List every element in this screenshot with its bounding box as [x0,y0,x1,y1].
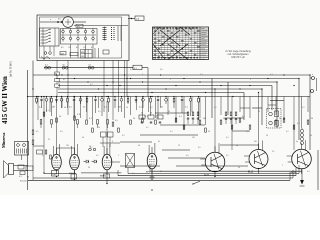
svg-text:5k: 5k [279,118,281,120]
svg-text:LW: LW [81,56,84,58]
svg-text:2k: 2k [133,118,135,120]
svg-text:50: 50 [160,171,162,173]
svg-text:0,2: 0,2 [90,84,93,86]
svg-text:0,5: 0,5 [60,131,63,133]
svg-text:50: 50 [258,111,260,113]
svg-text:50: 50 [27,177,29,179]
svg-text:1: 1 [170,79,171,81]
svg-text:0,1: 0,1 [90,147,93,149]
svg-text:47: 47 [63,79,65,81]
svg-text:50: 50 [238,167,240,169]
svg-text:0,1: 0,1 [98,111,101,113]
svg-text:0,3: 0,3 [246,131,249,133]
svg-text:2: 2 [250,79,251,81]
svg-text:0,5: 0,5 [186,155,189,157]
svg-text:0,1: 0,1 [200,74,203,76]
svg-text:50: 50 [88,167,90,169]
svg-text:50: 50 [311,118,313,120]
svg-text:25: 25 [48,139,50,141]
svg-text:0,1: 0,1 [130,69,133,71]
svg-text:50: 50 [141,113,143,115]
svg-text:1W: 1W [66,145,69,147]
svg-text:4,7k: 4,7k [77,114,81,116]
svg-text:0,1: 0,1 [297,123,300,125]
svg-text:50: 50 [126,107,128,109]
svg-text:8.2: 8.2 [76,47,79,49]
svg-text:1M: 1M [203,118,206,120]
svg-text:415 GW II Wien: 415 GW II Wien [2,76,9,124]
svg-text:0,1: 0,1 [226,155,229,157]
svg-text:MW: MW [81,52,85,54]
svg-text:Kl.1250: Kl.1250 [20,181,26,183]
svg-text:0,2: 0,2 [122,135,125,137]
svg-text:50: 50 [150,113,152,115]
svg-text:50: 50 [138,145,140,147]
svg-text:445 kHz 1 µF: 445 kHz 1 µF [231,57,245,59]
svg-text:4,5: 4,5 [58,18,61,20]
svg-text:8.2: 8.2 [69,47,72,49]
svg-text:0,1: 0,1 [36,131,39,133]
svg-text:4µ: 4µ [296,141,298,143]
svg-text:0,1: 0,1 [132,173,135,175]
svg-text:8.2: 8.2 [91,47,94,49]
svg-text:EL11: EL11 [204,175,210,177]
svg-text:0,1: 0,1 [42,155,45,157]
svg-text:0,5: 0,5 [115,120,118,122]
svg-text:0,1: 0,1 [270,74,273,76]
svg-text:0,1: 0,1 [19,176,22,178]
svg-text:50: 50 [59,116,61,118]
svg-text:(ab Nr. 59 601): (ab Nr. 59 601) [10,61,13,77]
svg-text:2: 2 [282,165,283,167]
svg-text:Minerva: Minerva [1,132,6,148]
svg-text:evtl. Schwierigkeiten: evtl. Schwierigkeiten [228,53,250,56]
svg-text:50: 50 [208,131,210,133]
svg-text:1k: 1k [168,111,170,113]
svg-text:0,1: 0,1 [272,151,275,153]
svg-text:0,1: 0,1 [89,118,92,120]
svg-text:5k: 5k [161,107,163,109]
svg-text:30: 30 [64,107,66,109]
svg-text:8.2: 8.2 [84,47,87,49]
svg-text:0,1: 0,1 [302,107,305,109]
svg-text:2k: 2k [98,127,100,129]
svg-text:0,5: 0,5 [160,69,163,71]
svg-text:0,1: 0,1 [146,127,149,129]
svg-text:5: 5 [142,74,143,76]
svg-text:50: 50 [82,137,84,139]
svg-text:8.2: 8.2 [61,47,64,49]
svg-text:0,1: 0,1 [242,116,245,118]
svg-text:0,2: 0,2 [150,107,153,109]
svg-text:0,1: 0,1 [170,131,173,133]
svg-text:8: 8 [112,141,113,143]
svg-text:2M: 2M [52,107,55,109]
svg-text:0,2: 0,2 [96,155,99,157]
svg-text:0,3: 0,3 [179,116,182,118]
svg-text:0,1: 0,1 [226,137,229,139]
svg-text:0,1: 0,1 [214,107,217,109]
svg-text:0,1: 0,1 [46,110,49,112]
svg-text:1: 1 [118,155,119,157]
svg-text:50: 50 [223,118,225,120]
svg-text:0,1: 0,1 [286,131,289,133]
svg-text:0,5: 0,5 [198,147,201,149]
svg-text:zu Teil: wege Umstellung: zu Teil: wege Umstellung [225,50,251,53]
svg-text:50: 50 [266,135,268,137]
svg-text:0,1: 0,1 [307,171,310,173]
svg-text:5k: 5k [158,141,160,143]
svg-text:50: 50 [310,135,312,137]
svg-text:8µ: 8µ [236,145,238,147]
svg-text:0,1: 0,1 [145,116,148,118]
svg-text:25: 25 [178,145,180,147]
